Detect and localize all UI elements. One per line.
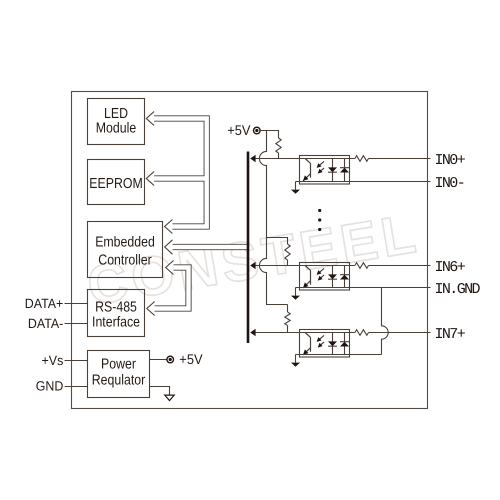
svg-text:IN6+: IN6+ <box>435 259 466 276</box>
wire IN7 return to IN.GND with hop <box>382 288 389 355</box>
input LED diode up of U1 (IN0) <box>340 159 349 182</box>
+5V top terminal circle <box>253 127 260 134</box>
wire +5V to pull-up R of IN0 <box>260 131 278 159</box>
input multiplexer bus bar <box>247 152 250 344</box>
phototransistor of U2 (IN6) <box>303 266 311 288</box>
input LED diode up of U2 (IN6) <box>340 266 349 288</box>
svg-text:+5V: +5V <box>179 351 203 367</box>
wire rail to pull-up R of IN7 <box>287 305 289 333</box>
svg-text:GND: GND <box>36 379 64 394</box>
resistor pull-up IN6 <box>285 244 290 260</box>
wire power regulator ground <box>150 387 170 395</box>
arrowhead into EEPROM <box>146 172 154 186</box>
svg-text:Embedded: Embedded <box>95 235 155 251</box>
input LED diode up of U3 (IN7) <box>340 333 349 355</box>
svg-text:Requlator: Requlator <box>92 372 146 388</box>
resistor pull-up IN7 <box>285 312 290 326</box>
+5V output terminal circle <box>167 356 174 363</box>
wire bottom rail of U1 (IN0) <box>296 181 431 183</box>
resistor pull-up IN0 <box>276 138 281 153</box>
svg-text:IN0+: IN0+ <box>435 152 466 169</box>
light arrows of U1 (IN0) <box>318 161 324 172</box>
svg-text:Module: Module <box>96 121 136 137</box>
input LED diode down of U3 (IN7) <box>328 333 337 355</box>
wire rail branch to pull-up R of IN6 <box>267 238 288 266</box>
resistor series IN6+ <box>355 263 369 269</box>
wire bottom rail of U3 (IN7) <box>296 354 382 356</box>
module border <box>72 92 428 409</box>
wire IN0+ input line with pull-up node <box>256 158 431 160</box>
light arrows of U2 (IN6) <box>318 268 324 279</box>
phototransistor of U1 (IN0) <box>303 159 311 181</box>
data bus from input mux bar to controller <box>171 244 248 250</box>
svg-text:RS-485: RS-485 <box>95 299 137 315</box>
wire +5V rail down with hops <box>259 131 287 305</box>
optocoupler U3 (IN7) body <box>300 330 350 358</box>
arrowhead into controller middle <box>165 240 173 254</box>
resistor series IN0+ <box>355 156 369 162</box>
wire bottom rail of U2 (IN6) <box>296 287 431 289</box>
wire IN6+ input line with pull-up node <box>256 265 431 267</box>
arrow into mux bus from U1 (IN0) <box>250 155 255 162</box>
arrowhead into controller bottom <box>166 261 174 275</box>
input LED diode down of U1 (IN0) <box>328 159 337 182</box>
optocoupler U2 (IN6) body <box>300 263 350 291</box>
wire IN7+ input line with pull-up node <box>256 332 431 334</box>
data bus controller to RS-485 interface <box>154 268 189 309</box>
arrowhead into RS-485 <box>147 302 155 316</box>
ground symbol power regulator <box>165 395 174 401</box>
input LED diode down of U2 (IN6) <box>328 266 337 288</box>
arrow into mux bus from U2 (IN6) <box>250 262 255 269</box>
svg-text:+5V: +5V <box>227 122 251 138</box>
svg-text:IN.GND: IN.GND <box>435 281 481 298</box>
svg-text:DATA-: DATA- <box>28 316 63 331</box>
svg-text:IN0-: IN0- <box>435 175 465 192</box>
arrow into mux bus from U3 (IN7) <box>250 329 255 336</box>
box RS-485 Interface <box>88 290 145 337</box>
arrowhead into LED module <box>146 112 154 126</box>
box Embedded Controller <box>88 222 163 278</box>
svg-text:LED: LED <box>104 106 128 122</box>
data bus controller to LED module and EEPROM <box>153 119 207 227</box>
phototransistor of U3 (IN7) <box>303 333 311 355</box>
wire power regulator +5V output <box>150 359 167 361</box>
light arrows of U3 (IN7) <box>318 335 324 346</box>
ground arrow of U2 (IN6) <box>295 288 297 296</box>
optocoupler U1 (IN0) body <box>300 156 350 185</box>
ground arrow of U1 (IN0) <box>295 182 297 190</box>
svg-text:+Vs: +Vs <box>42 353 64 368</box>
svg-text:Interface: Interface <box>92 315 140 331</box>
box EEPROM <box>88 160 145 205</box>
arrowhead into controller top <box>165 220 173 234</box>
box LED Module <box>88 99 145 145</box>
svg-text:EEPROM: EEPROM <box>89 176 142 192</box>
svg-text:Power: Power <box>101 357 136 373</box>
svg-text:IN7+: IN7+ <box>435 326 466 343</box>
resistor series IN7+ <box>355 330 369 336</box>
svg-text:Controller: Controller <box>98 253 152 269</box>
svg-text:DATA+: DATA+ <box>25 296 64 311</box>
ground arrow of U3 (IN7) <box>295 355 297 363</box>
box Power Requlator <box>88 351 150 398</box>
ellipsis dots between channels <box>318 209 321 212</box>
